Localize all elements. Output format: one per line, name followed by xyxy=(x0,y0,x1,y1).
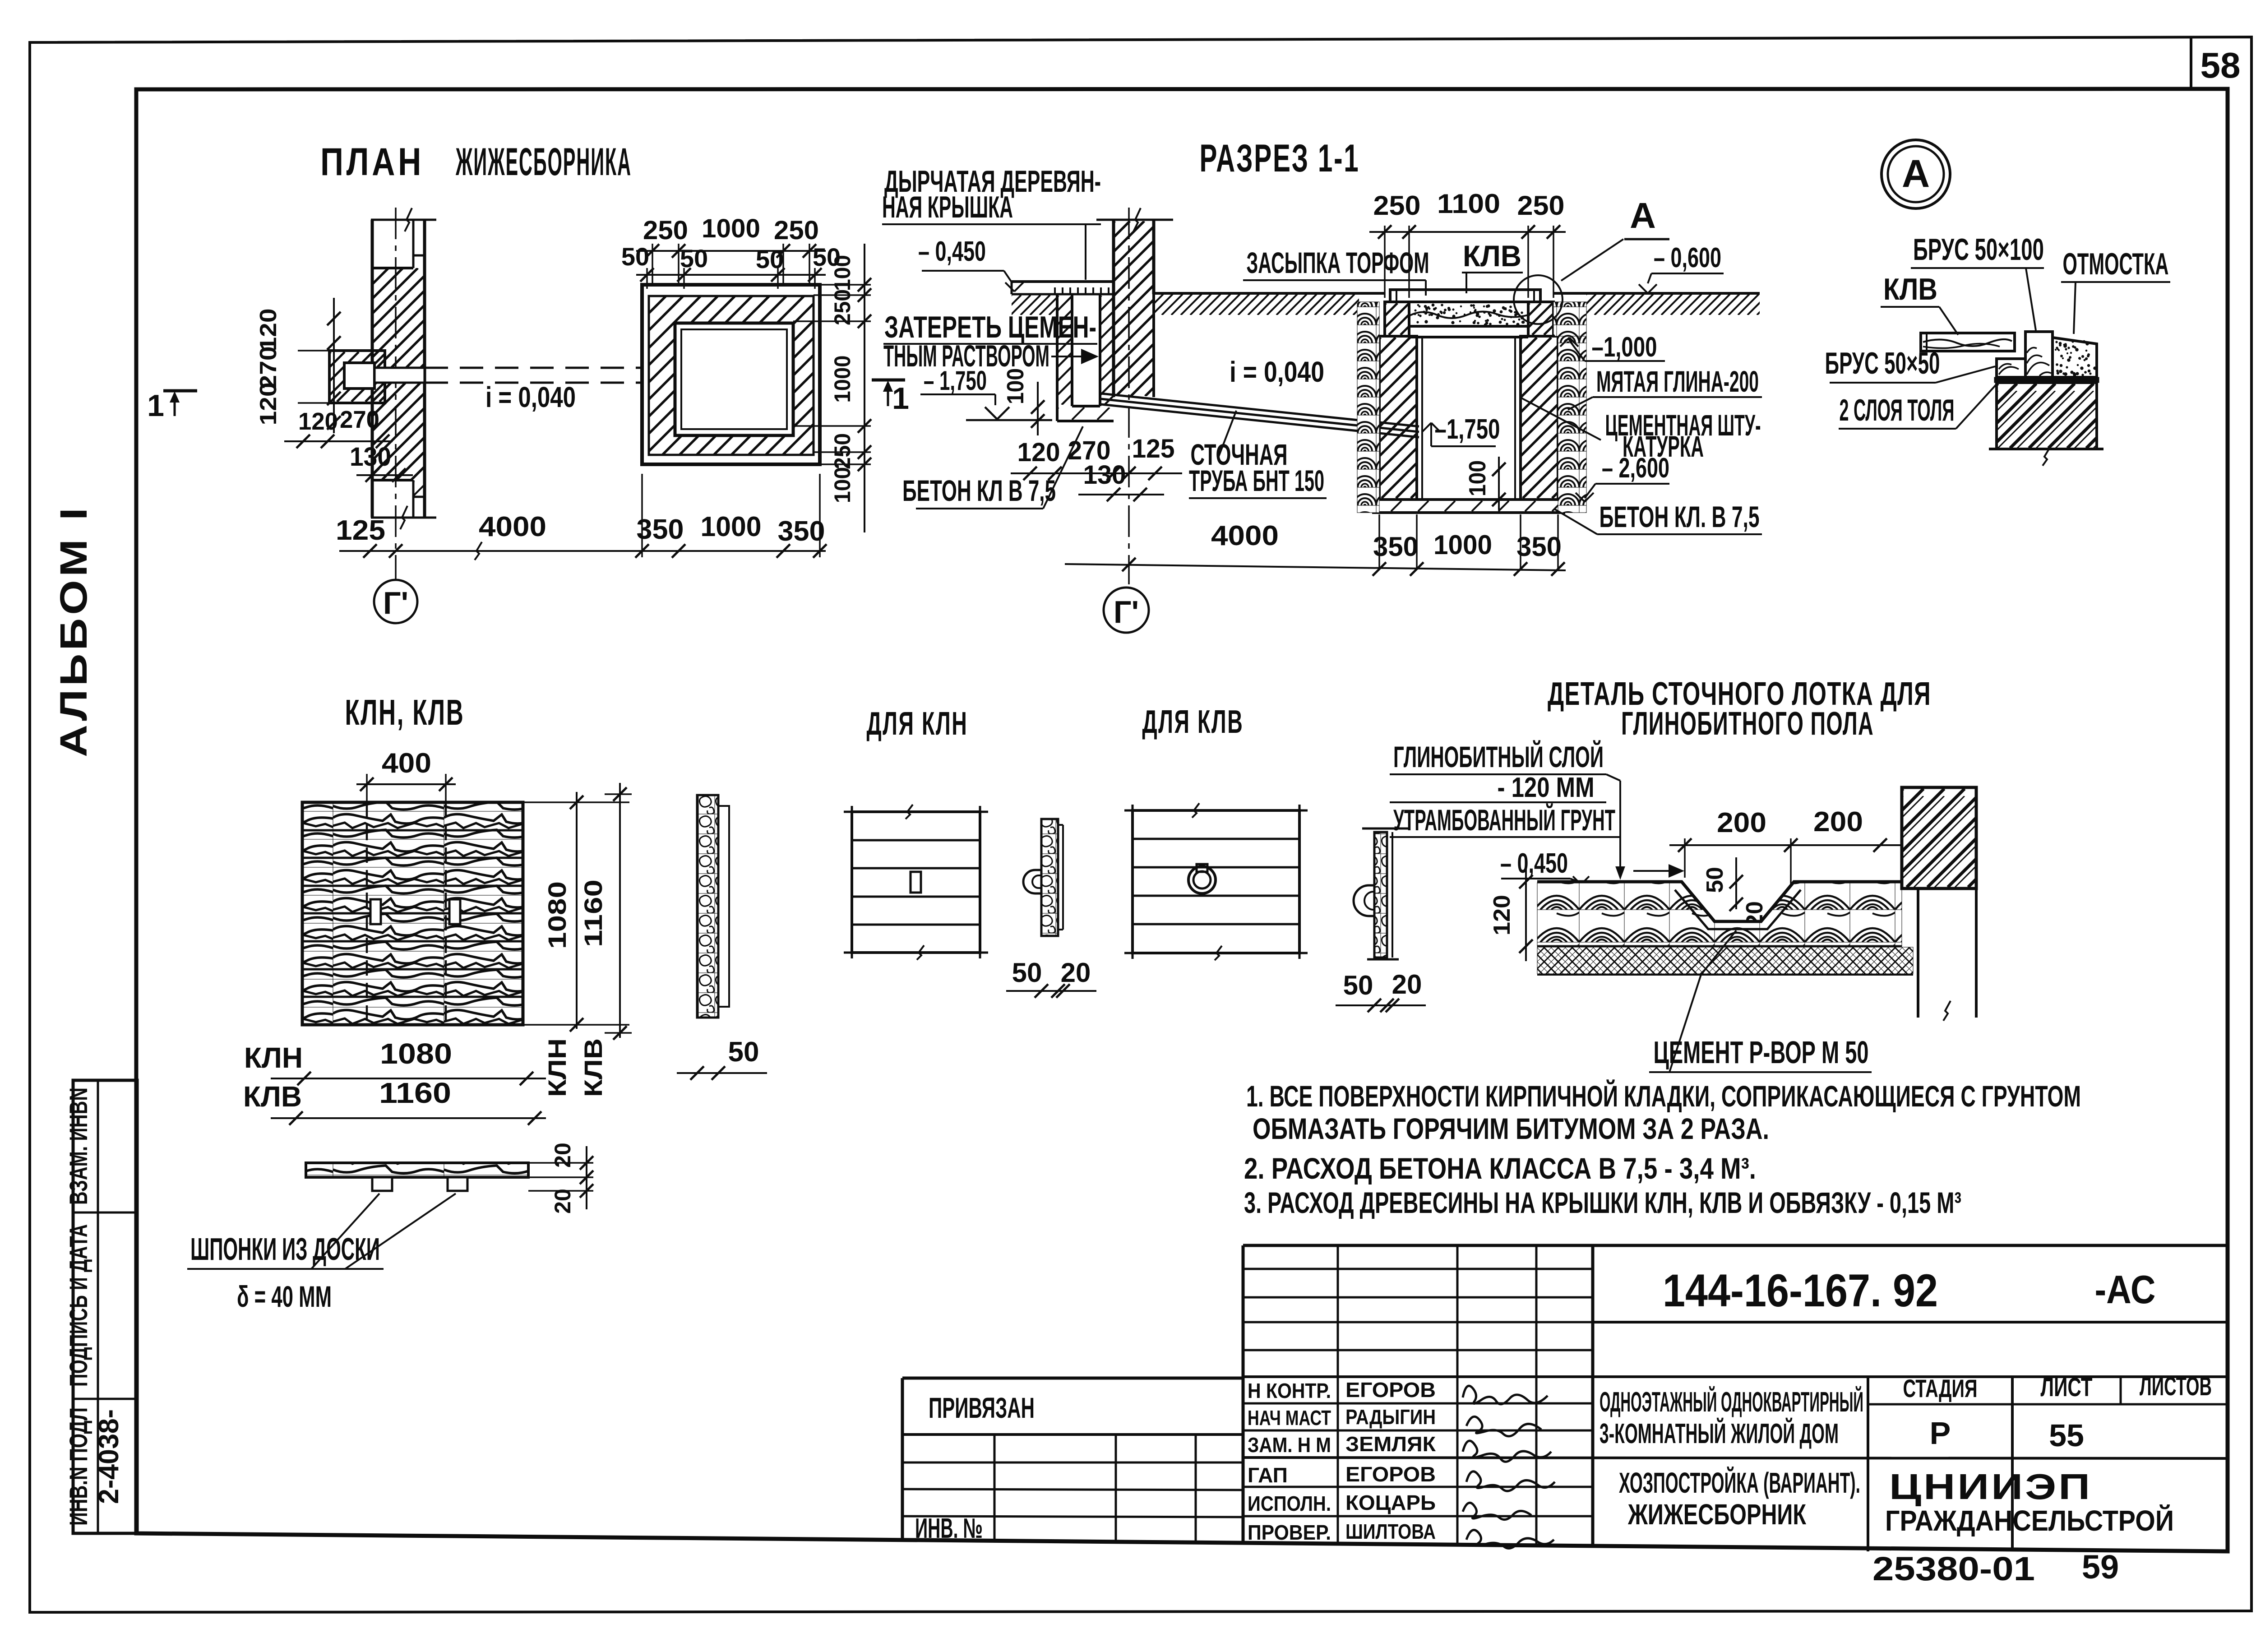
svg-text:ТРУБА БНТ 150: ТРУБА БНТ 150 xyxy=(1189,464,1324,497)
svg-text:КЛВ: КЛВ xyxy=(1883,272,1937,306)
svg-text:1000: 1000 xyxy=(702,214,760,243)
svg-text:3-КОМНАТНЫЙ ЖИЛОЙ ДОМ: 3-КОМНАТНЫЙ ЖИЛОЙ ДОМ xyxy=(1600,1418,1839,1449)
svg-text:УТРАМБОВАННЫЙ ГРУНТ: УТРАМБОВАННЫЙ ГРУНТ xyxy=(1393,803,1615,837)
section: KLV cover slab xyxy=(1390,290,1540,302)
covers: side view board xyxy=(698,796,717,1017)
lotok: compacted soil band xyxy=(1537,947,1913,974)
svg-text:400: 400 xyxy=(382,748,431,779)
svg-text:ДЛЯ КЛН: ДЛЯ КЛН xyxy=(867,706,968,742)
svg-text:КЛВ: КЛВ xyxy=(1463,239,1521,273)
plan: section mark 1 (left) xyxy=(163,389,197,393)
svg-text:– 0,450: – 0,450 xyxy=(918,236,986,267)
svg-text:125: 125 xyxy=(1132,434,1175,463)
svg-text:50: 50 xyxy=(1343,970,1373,1000)
section: ground line and hatch right of wall xyxy=(1154,292,1385,295)
section: dim 100 (slab) xyxy=(1498,457,1500,510)
svg-text:59: 59 xyxy=(2082,1548,2119,1586)
detail A: 2 layers of roofing felt xyxy=(1994,377,2099,383)
svg-text:2-4038-: 2-4038- xyxy=(93,1409,125,1504)
svg-text:ШИЛТОВА: ШИЛТОВА xyxy=(1345,1520,1436,1543)
svg-text:130: 130 xyxy=(1083,460,1126,490)
svg-text:350: 350 xyxy=(1516,532,1562,562)
plan square: top dim row 250/1000/250 xyxy=(636,250,826,252)
svg-text:А: А xyxy=(1902,152,1930,195)
svg-text:ГЛИНОБИТНОГО ПОЛА: ГЛИНОБИТНОГО ПОЛА xyxy=(1621,706,1874,742)
svg-text:1000: 1000 xyxy=(1433,530,1492,560)
svg-text:БРУС 50×50: БРУС 50×50 xyxy=(1825,346,1940,380)
detail A: brus 50x100 block xyxy=(2025,332,2053,377)
svg-text:1080: 1080 xyxy=(543,881,571,949)
svg-text:1080: 1080 xyxy=(380,1037,452,1070)
svg-text:50: 50 xyxy=(756,245,784,273)
svg-text:i = 0,040: i = 0,040 xyxy=(1230,356,1324,388)
svg-text:4000: 4000 xyxy=(1211,520,1279,551)
svg-text:ЖИЖЕСБОРНИК: ЖИЖЕСБОРНИК xyxy=(1627,1498,1806,1531)
svg-text:ЗАМ. Н М: ЗАМ. Н М xyxy=(1248,1433,1331,1457)
svg-text:А: А xyxy=(1630,195,1656,236)
dlya KLN: side view xyxy=(1042,820,1057,935)
section: wall axis xyxy=(1128,208,1130,584)
svg-text:КЛН: КЛН xyxy=(244,1041,303,1074)
plan square: right dim chain xyxy=(864,244,865,532)
svg-text:100: 100 xyxy=(830,255,855,291)
section: drain pipe xyxy=(1101,393,1419,426)
svg-text:2. РАСХОД БЕТОНА КЛАССА В 7,5: 2. РАСХОД БЕТОНА КЛАССА В 7,5 - 3,4 М³. xyxy=(1244,1152,1756,1185)
section: detail circle A xyxy=(1514,275,1563,324)
svg-text:– 0,600: – 0,600 xyxy=(1654,242,1721,273)
dlya KLN: face view xyxy=(852,812,980,953)
svg-text:1: 1 xyxy=(147,389,164,423)
svg-text:ГАП: ГАП xyxy=(1248,1463,1288,1487)
svg-text:20: 20 xyxy=(1061,958,1091,988)
svg-text:РАЗРЕЗ 1-1: РАЗРЕЗ 1-1 xyxy=(1200,137,1360,180)
svg-text:МЯТАЯ ГЛИНА-200: МЯТАЯ ГЛИНА-200 xyxy=(1596,365,1759,398)
svg-text:ПРИВЯЗАН: ПРИВЯЗАН xyxy=(929,1392,1035,1424)
svg-text:ЦЕМЕНТ Р-ВОР М 50: ЦЕМЕНТ Р-ВОР М 50 xyxy=(1654,1035,1869,1070)
svg-text:1. ВСЕ ПОВЕРХНОСТИ КИРПИЧНОЙ К: 1. ВСЕ ПОВЕРХНОСТИ КИРПИЧНОЙ КЛАДКИ, СОП… xyxy=(1246,1079,2081,1113)
svg-text:250: 250 xyxy=(1373,190,1421,221)
svg-text:1000: 1000 xyxy=(701,511,762,542)
svg-text:i = 0,040: i = 0,040 xyxy=(485,381,576,413)
svg-text:1160: 1160 xyxy=(579,879,607,947)
svg-text:ЗЕМЛЯК: ЗЕМЛЯК xyxy=(1345,1432,1436,1456)
svg-text:ЖИЖЕСБОРНИКА: ЖИЖЕСБОРНИКА xyxy=(456,140,632,184)
lotok: floor profile xyxy=(1537,883,1902,946)
svg-text:АЛЬБОМ I: АЛЬБОМ I xyxy=(52,504,95,757)
plan: dim 120/270 under inlet xyxy=(284,440,393,442)
section: section mark 1 (top) xyxy=(872,379,905,382)
lotok: dim 200/200 xyxy=(1669,844,1902,846)
svg-text:1160: 1160 xyxy=(379,1077,451,1109)
lotok: small dims 50 and 20 xyxy=(1735,857,1737,909)
plan: axis mark Г1 xyxy=(374,580,417,623)
svg-text:25380-01: 25380-01 xyxy=(1872,1550,2035,1587)
svg-text:–1,000: –1,000 xyxy=(1592,332,1657,363)
svg-text:20: 20 xyxy=(1392,969,1422,1000)
svg-text:50: 50 xyxy=(621,242,649,271)
plan: pit square xyxy=(642,285,820,464)
svg-text:ГРАЖДАНСЕЛЬСТРОЙ: ГРАЖДАНСЕЛЬСТРОЙ xyxy=(1885,1504,2174,1537)
svg-text:КЛВ: КЛВ xyxy=(579,1038,607,1097)
svg-text:55: 55 xyxy=(2049,1418,2084,1453)
svg-text:200: 200 xyxy=(1813,806,1863,838)
svg-text:50: 50 xyxy=(1702,867,1728,893)
svg-text:Г': Г' xyxy=(1114,594,1139,629)
svg-text:100: 100 xyxy=(830,467,855,503)
svg-text:ЛИСТОВ: ЛИСТОВ xyxy=(2140,1372,2212,1401)
plan square: top dim row 50s xyxy=(636,274,826,276)
covers: right vertical dims 1080/1160 xyxy=(576,792,578,1029)
svg-text:–1,750: –1,750 xyxy=(1435,414,1500,445)
svg-text:130: 130 xyxy=(350,442,391,472)
svg-text:270: 270 xyxy=(340,406,379,433)
svg-text:4000: 4000 xyxy=(479,511,546,542)
signatures xyxy=(1463,1386,1548,1404)
svg-text:БРУС 50×100: БРУС 50×100 xyxy=(1913,232,2044,267)
section: dim 100 channel slab xyxy=(1037,382,1039,435)
svg-text:50: 50 xyxy=(1012,958,1042,988)
svg-text:350: 350 xyxy=(637,514,684,545)
svg-text:ПОДПИСЬ И ДАТА: ПОДПИСЬ И ДАТА xyxy=(64,1224,92,1387)
svg-text:ХОЗПОСТРОЙКА (ВАРИАНТ).: ХОЗПОСТРОЙКА (ВАРИАНТ). xyxy=(1619,1466,1860,1499)
plan: wall strip xyxy=(371,219,436,221)
plan: left rotated dim chain 120/270/120 xyxy=(333,298,335,433)
dlya KLV: ring handle xyxy=(1188,866,1216,893)
detail A: circle label xyxy=(1882,140,1950,208)
title block: left "Привязан" table xyxy=(902,1377,1243,1380)
plan: trench dashed lines xyxy=(425,367,642,369)
svg-text:КЛН: КЛН xyxy=(543,1038,571,1097)
section: axis mark Г1 xyxy=(1104,588,1149,633)
detail A: otmostka wedge xyxy=(2053,338,2097,377)
svg-text:1100: 1100 xyxy=(1437,189,1500,219)
svg-text:ЕГОРОВ: ЕГОРОВ xyxy=(1345,1462,1436,1486)
svg-text:250: 250 xyxy=(643,216,688,245)
section: level -1.750 xyxy=(1422,423,1431,432)
svg-text:КОЦАРЬ: КОЦАРЬ xyxy=(1345,1491,1436,1514)
svg-text:58: 58 xyxy=(2201,45,2241,85)
svg-text:20: 20 xyxy=(550,1189,575,1214)
svg-text:50: 50 xyxy=(728,1037,759,1068)
svg-text:ЦНИИЭП: ЦНИИЭП xyxy=(1889,1467,2092,1507)
svg-text:ОДНОЭТАЖНЫЙ ОДНОКВАРТИРНЫЙ: ОДНОЭТАЖНЫЙ ОДНОКВАРТИРНЫЙ xyxy=(1600,1386,1863,1418)
section: perforated cover left of wall xyxy=(1012,280,1114,283)
svg-text:БЕТОН КЛ В 7,5: БЕТОН КЛ В 7,5 xyxy=(902,474,1056,507)
svg-text:НАЯ КРЫШКА: НАЯ КРЫШКА xyxy=(882,190,1013,224)
title block: small upper grid xyxy=(1242,1245,1245,1543)
svg-text:ГЛИНОБИТНЫЙ СЛОЙ: ГЛИНОБИТНЫЙ СЛОЙ xyxy=(1393,740,1604,773)
svg-text:КЛН, КЛВ: КЛН, КЛВ xyxy=(345,692,465,732)
svg-text:ИСПОЛН.: ИСПОЛН. xyxy=(1248,1492,1331,1515)
svg-text:Н КОНТР.: Н КОНТР. xyxy=(1248,1379,1331,1402)
lotok: wall below xyxy=(1917,888,1919,1018)
title block: right big box xyxy=(1593,1321,2228,1323)
covers: dim 400 xyxy=(356,783,456,785)
svg-text:250: 250 xyxy=(774,216,819,245)
dlya KLV: face view xyxy=(1133,810,1299,953)
svg-text:100: 100 xyxy=(1465,460,1491,496)
lotok: dim 120 xyxy=(1525,866,1527,961)
svg-text:ОБМАЗАТЬ ГОРЯЧИМ БИТУМОМ ЗА 2: ОБМАЗАТЬ ГОРЯЧИМ БИТУМОМ ЗА 2 РАЗА. xyxy=(1253,1112,1769,1145)
left rotated stamp strip xyxy=(73,1080,137,1533)
svg-text:– 2,600: – 2,600 xyxy=(1602,453,1669,484)
section: bottom dim 4000/350/1000/350 xyxy=(1065,564,1566,570)
section: top dim 250/1100/250 xyxy=(1369,231,1566,233)
svg-text:ЕГОРОВ: ЕГОРОВ xyxy=(1345,1378,1436,1402)
detail A: KLV slab xyxy=(1921,333,2015,351)
section: KLN cover xyxy=(1409,325,1528,328)
svg-text:СТАДИЯ: СТАДИЯ xyxy=(1903,1374,1978,1402)
svg-text:125: 125 xyxy=(336,515,385,546)
svg-text:– 0,450: – 0,450 xyxy=(1500,848,1568,879)
section: clay packing loops xyxy=(1357,302,1379,513)
svg-text:3. РАСХОД ДРЕВЕСИНЫ НА КРЫШКИ: 3. РАСХОД ДРЕВЕСИНЫ НА КРЫШКИ КЛН, КЛВ И… xyxy=(1244,1186,1961,1219)
svg-text:ВЗАМ. ИНВN: ВЗАМ. ИНВN xyxy=(64,1087,92,1205)
svg-text:100: 100 xyxy=(1003,368,1029,404)
covers: bottom edge view with keys xyxy=(307,1164,527,1176)
svg-text:- 120 ММ: - 120 ММ xyxy=(1498,772,1595,803)
svg-text:250: 250 xyxy=(1517,190,1565,221)
svg-text:ИНВ. №: ИНВ. № xyxy=(915,1513,983,1544)
svg-text:НАЧ МАСТ: НАЧ МАСТ xyxy=(1248,1406,1331,1430)
svg-text:РАДЫГИН: РАДЫГИН xyxy=(1345,1405,1436,1429)
svg-text:Г': Г' xyxy=(383,585,408,620)
svg-text:Р: Р xyxy=(1930,1416,1951,1451)
plan: bottom dim row 125/4000/350/1000/350 xyxy=(339,550,826,552)
detail A: brus 50x50 block xyxy=(1997,359,2025,377)
svg-text:144-16-167. 92: 144-16-167. 92 xyxy=(1663,1265,1938,1316)
svg-text:ИНВ.N ПОДЛ: ИНВ.N ПОДЛ xyxy=(64,1407,92,1526)
svg-text:350: 350 xyxy=(778,516,825,547)
svg-text:КЛВ: КЛВ xyxy=(243,1080,302,1113)
svg-text:120: 120 xyxy=(1489,895,1515,935)
svg-text:ЛИСТ: ЛИСТ xyxy=(2041,1373,2093,1402)
plan: wall axis xyxy=(395,208,397,580)
svg-text:120: 120 xyxy=(1017,438,1060,467)
svg-text:20: 20 xyxy=(550,1143,575,1168)
svg-text:δ = 40 ММ: δ = 40 ММ xyxy=(237,1280,332,1313)
covers: dim 20/20 xyxy=(586,1146,587,1209)
svg-text:ОТМОСТКА: ОТМОСТКА xyxy=(2063,247,2169,281)
title block: name rows xyxy=(1243,1375,2228,1378)
section: peat fill xyxy=(1409,311,1528,318)
svg-text:-АС: -АС xyxy=(2095,1267,2156,1312)
svg-text:ДЛЯ КЛВ: ДЛЯ КЛВ xyxy=(1142,704,1244,740)
svg-text:1000: 1000 xyxy=(830,356,855,403)
svg-text:120: 120 xyxy=(255,383,282,426)
svg-text:1: 1 xyxy=(892,381,909,416)
svg-text:– 1,750: – 1,750 xyxy=(924,366,987,396)
lotok: arrow on floor xyxy=(1633,870,1678,872)
section: building wall xyxy=(1096,219,1173,221)
svg-text:200: 200 xyxy=(1717,807,1766,838)
svg-text:120: 120 xyxy=(298,408,338,435)
svg-text:120: 120 xyxy=(255,309,282,352)
covers: plan square with boards xyxy=(303,803,522,1024)
svg-text:ШПОНКИ ИЗ ДОСКИ: ШПОНКИ ИЗ ДОСКИ xyxy=(190,1231,380,1267)
dlya KLV: side view xyxy=(1362,828,1409,830)
svg-text:ПЛАН: ПЛАН xyxy=(320,140,424,184)
sheet number box 58 xyxy=(2190,37,2192,89)
svg-text:ЗАСЫПКА ТОРФОМ: ЗАСЫПКА ТОРФОМ xyxy=(1247,246,1429,279)
svg-text:2 СЛОЯ ТОЛЯ: 2 СЛОЯ ТОЛЯ xyxy=(1840,393,1955,427)
svg-text:ПРОВЕР.: ПРОВЕР. xyxy=(1248,1521,1331,1544)
svg-text:БЕТОН КЛ. В 7,5: БЕТОН КЛ. В 7,5 xyxy=(1600,500,1760,533)
